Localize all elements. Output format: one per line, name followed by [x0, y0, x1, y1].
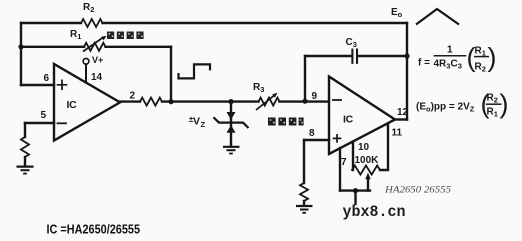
wire pin 6 [21, 84, 54, 86]
wire pin 8 [304, 139, 329, 141]
potentiometer 100K body [352, 166, 380, 175]
zener bar [214, 117, 249, 128]
svg-text:IC =HA2650/26555: IC =HA2650/26555 [47, 222, 141, 237]
square wave symbol [179, 64, 211, 78]
wire R1 branch vertical [170, 47, 172, 102]
svg-text:IC: IC [343, 114, 354, 126]
ground (pin5) [17, 167, 34, 174]
svg-text:Z: Z [201, 120, 206, 129]
resistor R1 [84, 43, 106, 51]
svg-text:V: V [193, 116, 200, 128]
arrow R1 [83, 38, 103, 52]
svg-text:10: 10 [358, 142, 370, 153]
arrow wiper [365, 173, 370, 180]
wire zener branch [230, 102, 232, 147]
wire stub down [354, 191, 356, 204]
svg-text:): ) [488, 43, 497, 73]
wire left vertical [20, 23, 22, 85]
node A (R1 tap) [18, 44, 23, 49]
svg-text:2: 2 [130, 91, 136, 102]
node F (pot bottom) [353, 188, 358, 193]
svg-text:9: 9 [312, 91, 318, 102]
arrow R3 [256, 95, 275, 110]
wiper lead [367, 177, 369, 191]
minus sign U2 [333, 99, 341, 101]
pin V+ lead [85, 64, 87, 82]
svg-text:V+: V+ [92, 55, 103, 65]
svg-text:12: 12 [397, 107, 409, 118]
svg-text:11: 11 [392, 128, 403, 139]
wire R3 to pin 9 [280, 100, 330, 102]
op-amp U1 triangle [54, 64, 120, 141]
wire pin8 down [303, 140, 305, 183]
capacitor C3 [352, 50, 357, 63]
svg-text:100K: 100K [355, 155, 380, 166]
wire resistor to ground [24, 157, 26, 166]
label amplitude-adjust (CJK blobs) [107, 32, 144, 40]
plus sign U1 [58, 80, 67, 89]
wire R2 to output node [103, 22, 408, 24]
wire pin 5 [25, 122, 54, 124]
wire top R2 net [21, 22, 81, 24]
svg-text:5: 5 [41, 110, 47, 121]
wire pin 10 lead [352, 142, 354, 171]
svg-text:14: 14 [91, 72, 103, 83]
svg-text:f =: f = [418, 58, 430, 69]
wire U1 output [120, 100, 140, 102]
resistor (pin5 to ground) [21, 137, 29, 157]
svg-text:7: 7 [341, 157, 347, 168]
wire pin5 resistor lead [24, 123, 26, 137]
ground (zener) [223, 147, 240, 154]
svg-text:1: 1 [447, 45, 453, 56]
wire R1 left [21, 46, 84, 48]
pin 14 supply circle [83, 58, 89, 64]
wire pin 11 lead [380, 124, 388, 171]
resistor R2 [81, 19, 103, 27]
wire resistor to ground right [303, 201, 305, 206]
svg-text:IC: IC [67, 99, 78, 111]
svg-text:8: 8 [309, 128, 315, 139]
node D (pin 9) [302, 99, 307, 104]
wire C3 right [358, 55, 407, 57]
wire C3 branch vertical [304, 56, 306, 102]
svg-text:(: ( [467, 43, 476, 73]
svg-text:ybx8.cn: ybx8.cn [343, 203, 406, 221]
ground (pin8) [296, 206, 313, 213]
wire output vertical [406, 23, 408, 120]
svg-text:(Eo)pp = 2VZ: (Eo)pp = 2VZ [416, 102, 475, 114]
node E (C3 right) [404, 53, 409, 58]
resistor (pin8 to ground) [300, 183, 308, 201]
minus sign U1 [58, 122, 67, 124]
wire pin 7 lead [339, 148, 341, 191]
plus sign U2 [334, 135, 341, 142]
wire R1 right [106, 46, 172, 48]
svg-text:6: 6 [44, 73, 50, 84]
zener D2 (bottom) [227, 125, 236, 133]
node C (zener tap) [228, 99, 233, 104]
wire pot bottom [340, 189, 370, 191]
label frequency-adjust (CJK blobs) [268, 118, 304, 126]
zener D1 (top) [227, 112, 236, 120]
wire main to R3 [162, 100, 259, 102]
wire U2 output [395, 118, 407, 120]
triangle wave symbol [416, 9, 459, 25]
svg-text:HA2650 26555: HA2650 26555 [384, 185, 452, 195]
op-amp U2 triangle [329, 77, 395, 155]
fraction bars [434, 55, 467, 57]
resistor (U1 output) [140, 98, 162, 106]
node B (R1 to output wire) [168, 99, 173, 104]
wire C3 left [305, 55, 351, 57]
resistor R3 [259, 98, 280, 106]
